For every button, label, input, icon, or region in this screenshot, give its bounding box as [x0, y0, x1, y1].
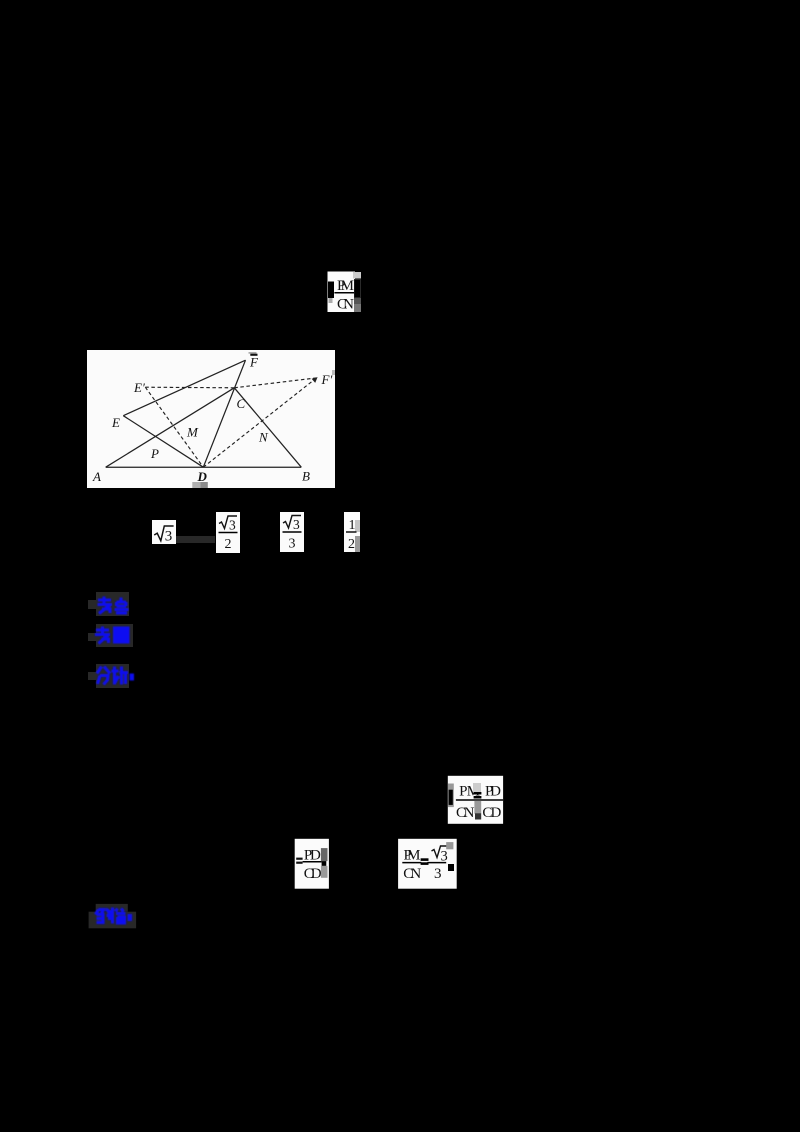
svg-text:PD: PD [485, 784, 501, 800]
formula image: PM/CN = PD/CD [447, 775, 505, 825]
svg-text:CN: CN [403, 866, 421, 882]
dashed CF' [234, 378, 316, 388]
svg-text:A: A [92, 469, 101, 484]
svg-text:D: D [197, 469, 208, 484]
svg-text:2: 2 [348, 537, 355, 552]
svg-text:C: C [237, 396, 246, 411]
svg-text:1: 1 [349, 518, 356, 533]
wire solid FD [203, 360, 245, 467]
svg-text:CD: CD [304, 866, 322, 882]
dashed E'C [145, 386, 234, 389]
wire solid AB [106, 466, 302, 468]
option sqrt3 [152, 520, 176, 544]
svg-text:F′: F′ [321, 372, 333, 387]
svg-text:E′: E′ [133, 380, 145, 395]
svg-text:F: F [249, 355, 259, 370]
overbar above F [249, 352, 257, 353]
formula image: PM/CN = sqrt3/3 [397, 838, 457, 890]
gray cursor under D [192, 482, 200, 488]
formula image: fraction PM/CN (top) [326, 270, 362, 314]
svg-text:PM: PM [337, 278, 354, 294]
svg-text:3: 3 [293, 517, 300, 532]
svg-text:CN: CN [337, 297, 354, 313]
svg-text:B: B [302, 469, 310, 484]
svg-text:3: 3 [434, 866, 442, 882]
dashed DF' [203, 378, 316, 467]
svg-text:3: 3 [165, 529, 173, 545]
dashed E'D [145, 387, 203, 467]
wire solid ED [123, 416, 203, 468]
blue label kaodian [88, 592, 136, 618]
answer blank bar [176, 536, 215, 543]
svg-text:CN: CN [456, 805, 475, 821]
geometry figure [87, 350, 335, 491]
option sqrt3/3 [280, 512, 304, 552]
blue label jieda [88, 903, 140, 930]
wire solid AC [106, 388, 235, 467]
option 1/2 [344, 512, 360, 552]
svg-text:E: E [111, 415, 120, 430]
svg-text:P: P [150, 446, 159, 461]
formula image: = PD/CD [294, 838, 330, 890]
arrowhead at F' [312, 377, 318, 383]
svg-text:N: N [258, 430, 269, 445]
blue label zhuanti [88, 623, 138, 649]
option sqrt3/2 [216, 512, 240, 553]
svg-text:3: 3 [289, 537, 296, 552]
svg-text:3: 3 [229, 517, 236, 532]
blue label fenxi [88, 663, 140, 689]
wire solid EF [123, 360, 245, 416]
wire solid CB [234, 388, 301, 467]
svg-text:CD: CD [482, 805, 501, 821]
svg-text:2: 2 [225, 537, 232, 552]
svg-text:M: M [186, 425, 199, 440]
svg-text:PM: PM [404, 848, 421, 864]
